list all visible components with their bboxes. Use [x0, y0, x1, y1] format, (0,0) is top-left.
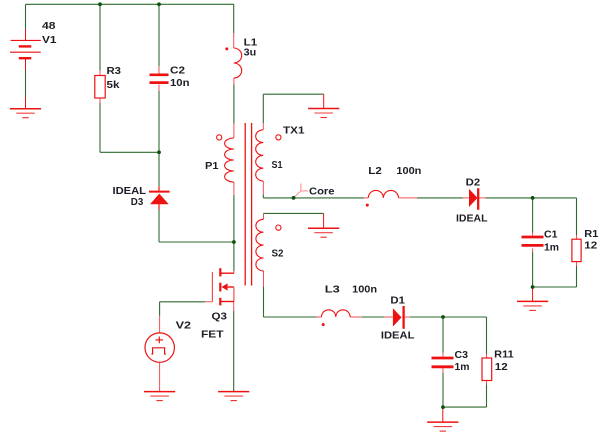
diode D1	[393, 306, 404, 329]
svg-text:S2: S2	[272, 249, 284, 260]
svg-text:D3: D3	[131, 197, 144, 208]
svg-text:C2: C2	[170, 66, 185, 77]
wire D2 to C1 node and R1 corner	[479, 197, 486, 199]
wire secondary2 rail S2 to L3	[264, 316, 317, 318]
svg-text:Q3: Q3	[212, 312, 228, 323]
wire V1 top lead	[25, 4, 27, 29]
svg-text:C3: C3	[455, 350, 469, 361]
phase dot S1	[276, 135, 281, 140]
svg-text:IDEAL: IDEAL	[381, 331, 415, 342]
wire R1 branch	[576, 198, 578, 235]
wire R3 top branch	[99, 4, 101, 70]
wire C3 branch	[442, 317, 444, 353]
wire P1 bottom lead	[233, 182, 235, 195]
svg-text:IDEAL: IDEAL	[113, 186, 147, 197]
wire C2 top branch	[158, 4, 160, 66]
wire C3-R11 bottom rail	[443, 406, 487, 408]
junction node R3-C2 junction	[157, 150, 161, 154]
pulse source V2	[145, 333, 174, 362]
svg-text:P1: P1	[205, 161, 219, 172]
wire R11 branch	[486, 317, 488, 354]
ground (V1)	[10, 109, 41, 118]
junction node C3/R11 bottom	[441, 405, 445, 409]
node Core probe	[294, 184, 308, 198]
svg-text:TX1: TX1	[283, 126, 305, 137]
svg-text:L3: L3	[325, 285, 341, 296]
svg-text:100n: 100n	[352, 285, 377, 296]
wire S1 bottom lead	[262, 181, 264, 195]
wire top rail from V1 to L1	[26, 3, 234, 5]
wire V1 bottom lead	[25, 59, 27, 71]
svg-text:10n: 10n	[170, 78, 190, 89]
capacitor C1	[522, 237, 544, 245]
ground (C3)	[427, 422, 458, 431]
svg-text:V2: V2	[176, 321, 192, 332]
ground (C1)	[517, 301, 548, 310]
wire Q3 drain lead	[233, 242, 235, 271]
transformer TX1 core	[245, 123, 251, 286]
svg-text:C1: C1	[544, 230, 558, 241]
wire L1 top lead	[233, 4, 235, 33]
wire C2 node down to D3	[158, 152, 160, 186]
wire S2 top lead to ground	[263, 213, 265, 219]
junction node D2/C1	[531, 196, 535, 200]
svg-text:D2: D2	[466, 178, 481, 189]
svg-text:1m: 1m	[544, 242, 559, 253]
transformer secondary S1	[256, 130, 264, 181]
wire V2 to Q3 gate	[160, 301, 205, 303]
battery V1	[10, 40, 41, 58]
wire secondary1 rail S1 to L2	[263, 197, 364, 199]
svg-text:1m: 1m	[455, 362, 470, 373]
wire V2 bottom lead	[159, 362, 161, 391]
junction node top rail / C2	[157, 2, 161, 6]
resistor R11	[482, 358, 492, 381]
junction node D1/C3	[441, 315, 445, 319]
junction node P1/D3/Q3 drain	[232, 240, 236, 244]
svg-text:D1: D1	[390, 296, 405, 307]
phase dot L2	[366, 204, 369, 207]
svg-text:100n: 100n	[396, 166, 421, 177]
wire L1 to P1 link	[233, 78, 235, 85]
wire C3 ground stub	[442, 407, 444, 422]
wire L3 to D1	[350, 316, 362, 318]
ground (S2)	[308, 228, 339, 237]
wire D3 rail to P1/Q3 node	[159, 241, 234, 243]
wire C1 ground stub	[532, 287, 534, 301]
inductor L3	[322, 310, 351, 317]
wire L2 to D2	[399, 197, 418, 199]
ground (Q3 source)	[218, 392, 249, 401]
wire R3 bottom lead	[99, 98, 101, 103]
wire S1 top lead to ground rail	[262, 123, 264, 130]
junction node C1/R1 bottom	[531, 285, 535, 289]
svg-text:48: 48	[42, 21, 56, 32]
phase dot L1	[225, 47, 228, 50]
svg-text:Core: Core	[309, 187, 335, 198]
svg-text:R11: R11	[494, 350, 514, 361]
capacitor C2	[150, 75, 169, 83]
phase dot S2	[276, 225, 281, 230]
ground (S1 top)	[308, 109, 339, 118]
wire C2 bottom lead	[158, 85, 160, 92]
svg-text:R3: R3	[107, 66, 122, 77]
phase dot P1	[217, 135, 222, 140]
phase dot L3	[322, 323, 325, 326]
ground (V2)	[144, 392, 175, 401]
diode D3	[149, 186, 170, 209]
wire Q3 source lead	[233, 302, 235, 312]
inductor L1	[234, 48, 242, 78]
svg-text:12: 12	[495, 362, 509, 373]
junction node Core	[292, 196, 296, 200]
svg-text:R1: R1	[584, 229, 598, 240]
wire D3 to bottom rail	[158, 210, 160, 243]
resistor R3	[95, 76, 105, 99]
transformer secondary S2	[256, 219, 264, 271]
resistor R1	[572, 239, 581, 261]
transformer primary P1	[225, 138, 234, 182]
svg-text:IDEAL: IDEAL	[456, 214, 488, 225]
capacitor C3	[432, 358, 454, 367]
wire V2 top lead	[159, 302, 161, 316]
svg-text:V1: V1	[42, 35, 57, 46]
wire C1-R1 bottom rail	[533, 286, 577, 288]
junction node top rail / R3	[98, 2, 102, 6]
svg-text:12: 12	[584, 241, 598, 252]
wire S2 bottom lead	[263, 271, 265, 287]
svg-text:S1: S1	[272, 160, 283, 171]
mosfet Q3	[212, 268, 234, 305]
wire C1 branch	[532, 198, 534, 233]
inductor L2	[368, 190, 398, 198]
wire D1 to C3 node and R11 corner	[405, 316, 410, 318]
diode D2	[469, 188, 478, 210]
svg-text:L2: L2	[368, 166, 382, 177]
wire R3-C2 bottom rail	[100, 151, 159, 153]
svg-text:FET: FET	[201, 330, 224, 341]
svg-text:3u: 3u	[244, 48, 257, 59]
svg-text:5k: 5k	[107, 80, 121, 91]
